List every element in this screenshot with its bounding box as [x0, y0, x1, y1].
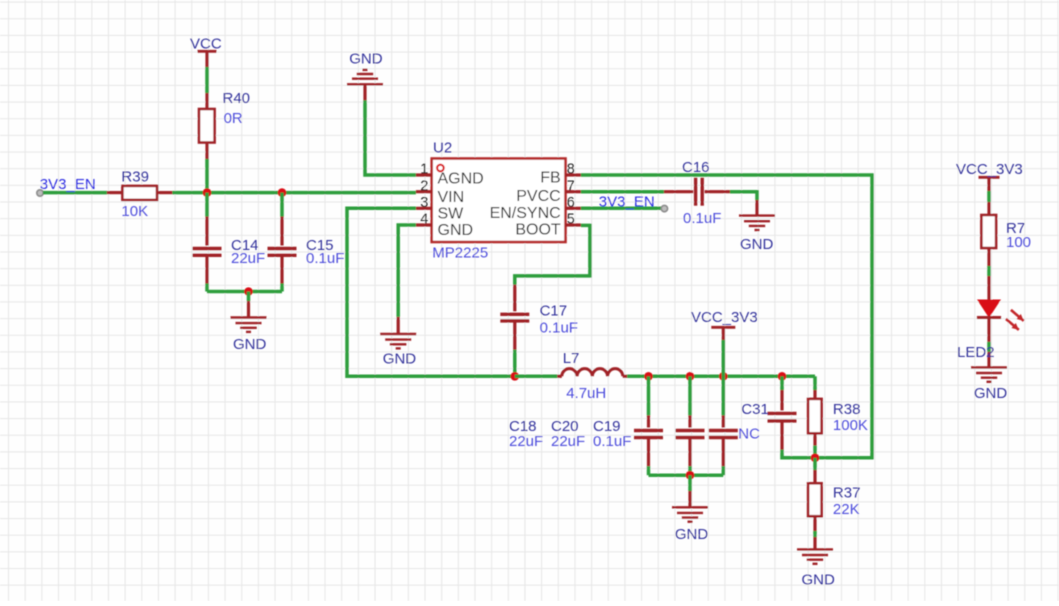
svg-text:3V3_EN: 3V3_EN [40, 176, 96, 193]
svg-text:C16: C16 [682, 159, 710, 176]
svg-text:7: 7 [567, 178, 575, 194]
svg-text:L7: L7 [563, 350, 580, 367]
svg-text:R39: R39 [121, 169, 149, 186]
svg-text:8: 8 [567, 162, 575, 178]
svg-text:2: 2 [420, 178, 428, 194]
svg-text:5: 5 [567, 212, 575, 228]
svg-text:GND: GND [740, 236, 774, 253]
svg-text:U2: U2 [433, 140, 452, 157]
svg-text:3V3_EN: 3V3_EN [599, 194, 655, 211]
svg-text:22K: 22K [833, 501, 860, 518]
svg-text:0.1uF: 0.1uF [683, 210, 721, 227]
svg-text:22uF: 22uF [231, 250, 265, 267]
svg-text:GND: GND [349, 50, 383, 67]
svg-text:C17: C17 [540, 303, 568, 320]
svg-text:SW: SW [438, 205, 465, 222]
svg-text:GND: GND [974, 385, 1008, 402]
svg-text:4.7uH: 4.7uH [566, 385, 606, 402]
svg-text:0.1uF: 0.1uF [540, 320, 578, 337]
svg-text:AGND: AGND [438, 171, 484, 188]
svg-text:100K: 100K [833, 417, 868, 434]
svg-text:4: 4 [420, 212, 428, 228]
svg-text:VCC_3V3: VCC_3V3 [956, 161, 1023, 178]
svg-text:GND: GND [233, 336, 267, 353]
svg-text:R37: R37 [833, 485, 861, 502]
svg-text:R40: R40 [223, 90, 251, 107]
svg-text:NC: NC [738, 425, 760, 442]
svg-text:VCC_3V3: VCC_3V3 [691, 309, 758, 326]
svg-text:0.1uF: 0.1uF [306, 250, 344, 267]
svg-text:BOOT: BOOT [515, 222, 561, 239]
svg-text:22uF: 22uF [551, 433, 585, 450]
svg-text:3: 3 [420, 195, 428, 211]
svg-text:10K: 10K [121, 203, 148, 220]
svg-text:GND: GND [675, 526, 709, 543]
svg-text:R38: R38 [833, 401, 861, 418]
svg-text:PVCC: PVCC [516, 188, 560, 205]
svg-text:VIN: VIN [438, 189, 465, 206]
svg-text:GND: GND [802, 572, 836, 589]
svg-text:C31: C31 [741, 401, 769, 418]
svg-text:VCC: VCC [190, 36, 222, 53]
svg-text:EN/SYNC: EN/SYNC [490, 205, 561, 222]
svg-text:GND: GND [383, 350, 417, 367]
svg-text:100: 100 [1006, 234, 1031, 251]
svg-text:0.1uF: 0.1uF [593, 433, 631, 450]
svg-text:MP2225: MP2225 [432, 245, 488, 262]
svg-text:GND: GND [438, 222, 474, 239]
svg-text:0R: 0R [224, 110, 243, 127]
svg-text:LED2: LED2 [957, 344, 995, 361]
svg-text:6: 6 [567, 195, 575, 211]
svg-text:1: 1 [420, 162, 428, 178]
svg-text:FB: FB [540, 169, 560, 186]
svg-text:22uF: 22uF [509, 433, 543, 450]
